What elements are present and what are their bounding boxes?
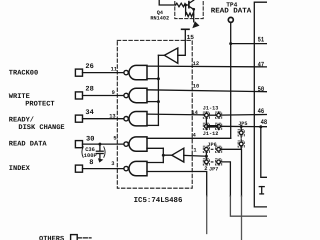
svg-text:8: 8 xyxy=(89,159,93,167)
node pin1 tap xyxy=(205,155,208,158)
inverter U1B xyxy=(172,148,184,162)
jumper J1-13 xyxy=(203,106,221,118)
inverter U1A top xyxy=(164,48,177,63)
right bus frame xyxy=(254,2,267,207)
wire G2 upper input to edge pin 50 xyxy=(147,90,267,92)
svg-text:28: 28 xyxy=(85,86,93,94)
connector pad pin 26 xyxy=(75,69,82,76)
gate G4 READ DATA xyxy=(124,137,147,151)
svg-text:12: 12 xyxy=(193,61,199,67)
wire G4 lower input xyxy=(147,147,163,149)
wire TP4 down to G4 input xyxy=(230,23,232,138)
wire G4 upper input to TP4 line xyxy=(147,137,231,139)
node right drop tap on 48 line xyxy=(259,125,262,128)
jumper gap dashes xyxy=(211,136,241,162)
svg-text:34: 34 xyxy=(85,109,93,117)
jumper JP6 xyxy=(205,142,221,151)
bus J1-13 to J1-12 left xyxy=(205,117,207,124)
wire inverter U1A output to bus xyxy=(158,54,164,56)
svg-text:26: 26 xyxy=(85,63,93,71)
svg-text:READ DATA: READ DATA xyxy=(211,8,252,16)
svg-text:IC5:74LS486: IC5:74LS486 xyxy=(134,197,183,205)
wire WRITE PROTECT pad to gate xyxy=(83,95,124,97)
svg-text:JP6: JP6 xyxy=(207,142,216,148)
wire G5 upper input xyxy=(147,162,163,164)
svg-text:46: 46 xyxy=(258,108,265,116)
resistor R1 (base) xyxy=(176,3,186,7)
wire JP7 right down to edge xyxy=(221,162,231,196)
svg-text:3: 3 xyxy=(111,161,114,167)
wire JP6 right to JP5 bottom xyxy=(221,148,242,150)
wire TRACK00 pad to gate xyxy=(83,72,124,74)
bus JP6 to JP7 left xyxy=(205,151,207,160)
wire G5 lower input pin2 going down xyxy=(147,172,207,197)
svg-text:11: 11 xyxy=(111,67,117,73)
svg-text:READ DATA: READ DATA xyxy=(9,141,48,149)
node emitter junction xyxy=(192,8,195,11)
wire J1-12 to edge pin 48 xyxy=(221,125,268,127)
svg-text:INDEX: INDEX xyxy=(9,165,31,173)
wire emitter down xyxy=(193,9,195,21)
connector pad pin 8 xyxy=(75,165,82,172)
svg-text:OTHERS: OTHERS xyxy=(39,235,64,240)
svg-text:4: 4 xyxy=(193,132,197,138)
svg-text:J1-13: J1-13 xyxy=(203,106,219,112)
wire READY pad to gate xyxy=(83,118,124,120)
svg-text:JP7: JP7 xyxy=(209,166,218,172)
IC5 dashed package box xyxy=(117,40,192,188)
svg-text:10: 10 xyxy=(193,83,199,89)
jumper JP5 vertical xyxy=(238,121,247,149)
wire READ DATA pad to gate xyxy=(83,143,124,145)
connector pad pin 28 xyxy=(75,92,82,99)
svg-text:100P: 100P xyxy=(84,153,97,159)
svg-text:15: 15 xyxy=(187,34,195,41)
svg-text:51: 51 xyxy=(258,37,265,45)
connector pad pin 30 xyxy=(75,141,82,148)
wire to base xyxy=(186,4,189,6)
jumper pin pad marks xyxy=(203,112,244,165)
svg-text:JP5: JP5 xyxy=(238,121,247,127)
wire G1 upper input to edge pin 47 xyxy=(147,65,267,68)
node JP5 tap on 48 line xyxy=(240,125,243,128)
node base junction xyxy=(184,4,187,7)
node G1 lower input junction xyxy=(157,77,160,80)
jumper J1-12 with short bar xyxy=(203,124,221,136)
svg-text:30: 30 xyxy=(86,135,94,143)
wire J1-13 to edge pin 46 xyxy=(221,114,268,117)
wire G2 lower input xyxy=(147,101,158,103)
svg-text:RN1402: RN1402 xyxy=(150,16,169,22)
node TP4 to 51 junction xyxy=(229,42,232,45)
svg-text:J1-12: J1-12 xyxy=(203,131,219,137)
Q4 dashed package box xyxy=(175,0,203,19)
wire inverter U1B input to JP6/JP7 bus xyxy=(184,154,207,157)
node G2 lower input junction xyxy=(157,100,160,103)
gate G5 INDEX xyxy=(124,161,147,175)
ground arrow Q4 emitter xyxy=(192,21,199,28)
svg-text:47: 47 xyxy=(258,61,265,69)
svg-text:9: 9 xyxy=(112,90,115,96)
svg-text:13: 13 xyxy=(109,114,115,120)
svg-text:WRITE: WRITE xyxy=(9,93,30,101)
wire entry top xyxy=(159,0,175,5)
svg-text:50: 50 xyxy=(258,86,265,94)
svg-text:READY/: READY/ xyxy=(9,115,34,124)
wire inverter U1B output bus xyxy=(163,148,172,162)
gate G2 WRITE PROTECT xyxy=(124,88,147,102)
connector pad OTHERS xyxy=(71,235,78,240)
svg-text:TRACK00: TRACK00 xyxy=(9,70,38,78)
svg-text:5: 5 xyxy=(113,136,116,142)
wire to edge pin 51 xyxy=(231,43,267,45)
right drop from 48 line xyxy=(261,127,267,178)
capacitor C36 100P xyxy=(82,144,105,163)
svg-text:PROTECT: PROTECT xyxy=(25,101,54,109)
wire G1 lower input xyxy=(147,78,158,80)
wire JP5/JP6 node down xyxy=(241,149,243,196)
resistor R2 (base-emitter) xyxy=(186,5,194,17)
transistor Q4 xyxy=(189,0,194,9)
wire G3 upper input to jumper J1-13 xyxy=(147,113,205,116)
node U1B output junction xyxy=(162,154,165,157)
node junction C36 tap xyxy=(98,143,101,146)
svg-text:DISK CHANGE: DISK CHANGE xyxy=(18,124,64,132)
wire inverter U1A input to pin15 xyxy=(178,30,186,56)
connector symbol right edge xyxy=(259,187,264,194)
svg-text:1: 1 xyxy=(193,148,196,154)
connector pad pin 34 xyxy=(75,115,82,122)
wire G3 lower input xyxy=(147,124,158,126)
jumper JP7 xyxy=(205,160,221,172)
svg-text:48: 48 xyxy=(261,119,267,127)
gate G3 READY xyxy=(124,112,147,126)
pin 15 T-bar xyxy=(182,28,189,30)
wire INDEX pad to gate xyxy=(83,168,124,170)
gate G1 TRACK00 (output bubble left) xyxy=(124,65,147,79)
svg-text:14: 14 xyxy=(191,110,198,116)
bus inverter1 output vertical xyxy=(157,55,159,125)
wire OTHERS stub xyxy=(77,237,91,239)
